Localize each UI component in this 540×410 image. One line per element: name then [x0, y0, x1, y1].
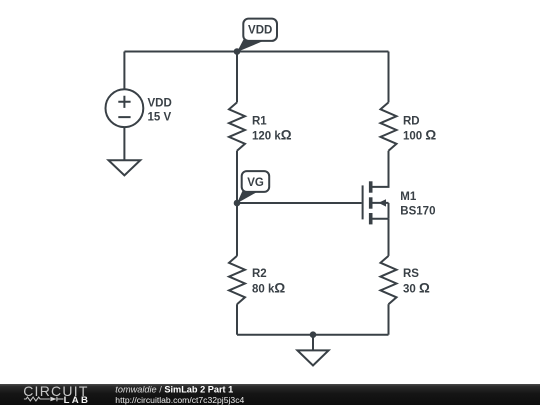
svg-text:RD: RD	[403, 115, 420, 127]
svg-text:30 Ω: 30 Ω	[403, 280, 430, 295]
svg-text:15 V: 15 V	[148, 112, 172, 124]
svg-text:LAB: LAB	[64, 395, 91, 405]
svg-text:VDD: VDD	[148, 98, 172, 110]
svg-text:http://circuitlab.com/ct7c32pj: http://circuitlab.com/ct7c32pj5j3c4	[115, 395, 244, 405]
svg-text:tomwaldie / SimLab 2 Part 1: tomwaldie / SimLab 2 Part 1	[115, 385, 233, 395]
svg-text:80 kΩ: 80 kΩ	[252, 280, 285, 295]
svg-text:BS170: BS170	[400, 206, 435, 218]
svg-text:VG: VG	[247, 177, 264, 189]
svg-text:R2: R2	[252, 268, 267, 280]
svg-text:RS: RS	[403, 268, 419, 280]
svg-text:VDD: VDD	[248, 25, 272, 37]
svg-text:120 kΩ: 120 kΩ	[252, 127, 292, 142]
svg-text:100 Ω: 100 Ω	[403, 127, 436, 142]
svg-text:R1: R1	[252, 115, 267, 127]
svg-text:M1: M1	[400, 191, 417, 203]
